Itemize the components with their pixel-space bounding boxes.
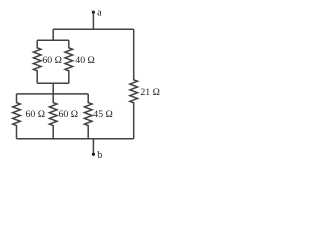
wire upper box top: [37, 39, 69, 41]
wire lower box top: [17, 93, 89, 95]
wire bottom rail: [17, 138, 134, 140]
svg-text:60 Ω: 60 Ω: [26, 109, 46, 120]
svg-text:40 Ω: 40 Ω: [75, 55, 95, 66]
resistor 45 ohm lower-right: [84, 94, 92, 139]
resistor 60 ohm lower-left: [13, 94, 21, 139]
resistor 60 ohm lower-middle: [49, 94, 57, 139]
resistor 60 ohm upper-left: [33, 40, 41, 83]
wire drop from rail to upper parallel box: [52, 29, 54, 40]
wire from node a down to top rail: [92, 12, 94, 29]
node a: [92, 11, 95, 14]
node b: [92, 153, 95, 156]
svg-text:b: b: [97, 150, 102, 161]
wire from bottom rail down to node b: [92, 139, 94, 155]
svg-text:45 Ω: 45 Ω: [93, 109, 113, 120]
resistor 21 ohm right branch: [130, 29, 138, 139]
svg-text:21 Ω: 21 Ω: [140, 87, 160, 98]
resistor 40 ohm upper-right: [65, 40, 73, 83]
svg-text:a: a: [97, 8, 102, 19]
svg-text:60 Ω: 60 Ω: [42, 55, 62, 66]
wire top rail: [53, 28, 134, 30]
wire between boxes: [52, 83, 54, 94]
wire upper box bottom: [37, 82, 69, 84]
svg-text:60 Ω: 60 Ω: [59, 109, 79, 120]
